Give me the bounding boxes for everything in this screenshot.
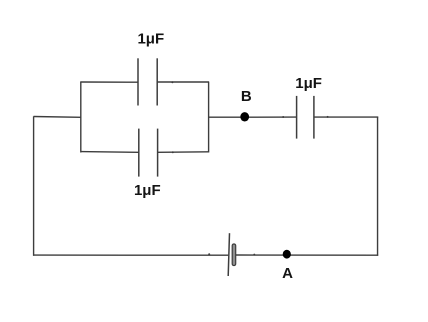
wire parallel block top edge left segment (80, 81, 138, 83)
battery short thick plate (232, 244, 236, 266)
junction tick on bottom wire left of battery (208, 253, 210, 255)
junction tick right of series capacitor (327, 116, 329, 118)
node B (240, 112, 249, 121)
wire bottom left (to battery) (33, 254, 228, 256)
capacitor C2 bottom 1uF right plate (157, 129, 159, 177)
wire parallel block top edge right segment (157, 81, 209, 83)
wire left stub (node B net to parallel block) (34, 116, 82, 119)
svg-text:1μF: 1μF (295, 75, 322, 92)
capacitor C1 top 1uF right plate (156, 58, 158, 105)
svg-text:1μF: 1μF (134, 182, 161, 199)
svg-text:B: B (241, 88, 252, 105)
wire parallel block bottom edge left segment (81, 151, 139, 154)
capacitor C1 top 1uF left plate (137, 58, 139, 105)
wire parallel block left edge (80, 82, 82, 153)
node A (283, 250, 291, 259)
junction tick on bottom wire right of battery (253, 254, 255, 256)
svg-text:A: A (282, 265, 293, 282)
wire left vertical (33, 116, 35, 255)
capacitor C3 series 1uF right plate (313, 96, 315, 139)
battery long thin plate (228, 233, 229, 276)
wire parallel block right edge (208, 82, 210, 153)
wire node B to series capacitor (208, 116, 296, 118)
wire bottom right (battery to right corner) (236, 254, 378, 256)
wire top right (series capacitor to right corner) (314, 116, 378, 118)
wire parallel block bottom edge right segment (158, 151, 209, 154)
capacitor C3 series 1uF left plate (296, 96, 298, 139)
junction tick on top capacitor right wire (171, 81, 173, 83)
svg-text:1μF: 1μF (137, 30, 164, 47)
wire right vertical (377, 117, 379, 256)
capacitor C2 bottom 1uF left plate (138, 129, 140, 177)
junction tick on wire B to series capacitor (282, 116, 284, 118)
junction tick on bottom capacitor right wire (172, 151, 174, 153)
